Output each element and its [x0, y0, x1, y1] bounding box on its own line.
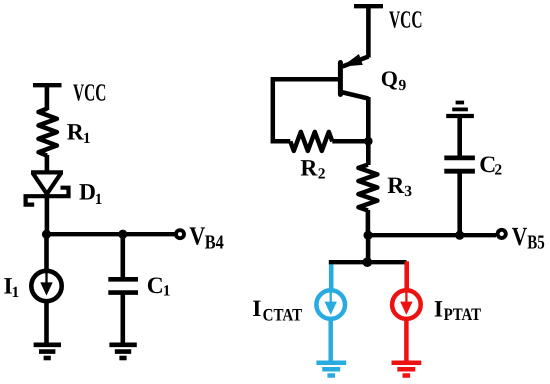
svg-text:2: 2 [318, 166, 326, 183]
wire junction to VB5 terminal [368, 233, 496, 237]
wire D1 to node [45, 195, 50, 236]
svg-text:VCC: VCC [389, 6, 423, 33]
transistor Q9 emitter arrow (PNP) [342, 54, 363, 67]
svg-text:9: 9 [399, 77, 407, 94]
svg-text:C: C [147, 273, 164, 299]
label D1 [79, 180, 102, 208]
svg-text:B5: B5 [527, 232, 545, 254]
wire base loop (left) [273, 79, 339, 141]
node C2 junction [455, 231, 464, 240]
wire sources rail (black) [329, 260, 407, 264]
svg-text:Q: Q [381, 66, 398, 91]
svg-text:R: R [387, 173, 405, 199]
label C1 [147, 273, 171, 300]
label R1 [67, 119, 91, 147]
wire C2 to VB5 wire [457, 171, 462, 236]
wire node to VB4 terminal [47, 232, 176, 236]
label C2 [479, 152, 502, 179]
svg-text:VCC: VCC [73, 80, 106, 107]
resistor R3 [358, 165, 377, 211]
transistor Q9 emitter diagonal [343, 57, 369, 67]
diode D1 (zener) anode bar [31, 170, 63, 174]
svg-text:B4: B4 [205, 232, 224, 254]
resistor R1 [39, 109, 57, 156]
node collector/R2/R3 [364, 137, 373, 146]
wire VCC to Q9 emitter [366, 6, 371, 57]
ground under C1 [109, 345, 136, 358]
label VB5 [512, 222, 545, 254]
node sources rail [363, 257, 373, 267]
diode D1 triangle [33, 173, 61, 194]
VCC rail (right) [354, 4, 383, 8]
svg-text:PTAT: PTAT [444, 304, 482, 324]
node at C1 junction [118, 230, 127, 239]
svg-text:V: V [512, 222, 528, 251]
inverted ground above C2 [446, 103, 474, 117]
wire C1 to ground [121, 293, 126, 344]
terminal VB5 [498, 230, 506, 238]
wire collector down through node to R3 [366, 97, 371, 165]
wire R2 to collector node [332, 139, 368, 144]
terminal VB4 [176, 230, 184, 238]
svg-text:V: V [189, 221, 205, 250]
svg-text:D: D [79, 180, 96, 206]
transistor Q9 base bar [338, 63, 343, 95]
wire IPTAT to ground [404, 319, 409, 361]
wire red drop to IPTAT [404, 261, 409, 290]
svg-text:1: 1 [95, 191, 103, 208]
current source IPTAT [392, 290, 421, 319]
svg-text:CTAT: CTAT [263, 304, 303, 324]
current source I1 [31, 271, 61, 301]
VCC rail (left) [33, 83, 62, 87]
node R3/VB5 junction [364, 231, 373, 240]
wire R3 to junction [366, 210, 371, 237]
label R2 [300, 155, 325, 182]
ground under IPTAT (red) [392, 363, 422, 376]
label I1 [4, 274, 20, 301]
capacitor C2 [444, 158, 475, 171]
svg-text:I: I [252, 296, 261, 322]
wire C1 node to C1 [121, 234, 126, 277]
label ICTAT [252, 296, 302, 324]
label VCC (right) [389, 6, 423, 33]
wire junction down to sources rail [366, 235, 371, 262]
svg-text:1: 1 [12, 284, 20, 301]
resistor R2 [290, 132, 332, 151]
label IPTAT [434, 296, 481, 324]
wire VCC stub (left) [45, 85, 50, 110]
capacitor C1 [108, 279, 138, 292]
svg-text:3: 3 [404, 183, 412, 200]
current source ICTAT [316, 290, 345, 319]
wire I1 to ground [44, 301, 49, 344]
label VB4 [189, 221, 224, 253]
ground under I1 [34, 345, 61, 358]
wire cyan drop to ICTAT [329, 265, 334, 291]
label R3 [387, 173, 412, 200]
svg-text:I: I [434, 296, 443, 322]
svg-text:2: 2 [494, 161, 502, 178]
diode D1 zener cathode bar [26, 188, 69, 205]
ground under ICTAT (cyan) [316, 363, 346, 376]
label Q9 [381, 66, 407, 94]
transistor Q9 collector diagonal [341, 92, 368, 99]
svg-text:1: 1 [163, 283, 171, 300]
wire R1 to D1 [45, 155, 50, 172]
wire inverted ground to C2 [457, 116, 462, 156]
wire node to I1 [44, 234, 49, 272]
svg-text:R: R [300, 155, 318, 181]
svg-text:1: 1 [83, 130, 91, 147]
node at VB4 junction left [42, 230, 51, 239]
label VCC (left) [73, 80, 106, 107]
wire ICTAT to ground [328, 319, 333, 361]
